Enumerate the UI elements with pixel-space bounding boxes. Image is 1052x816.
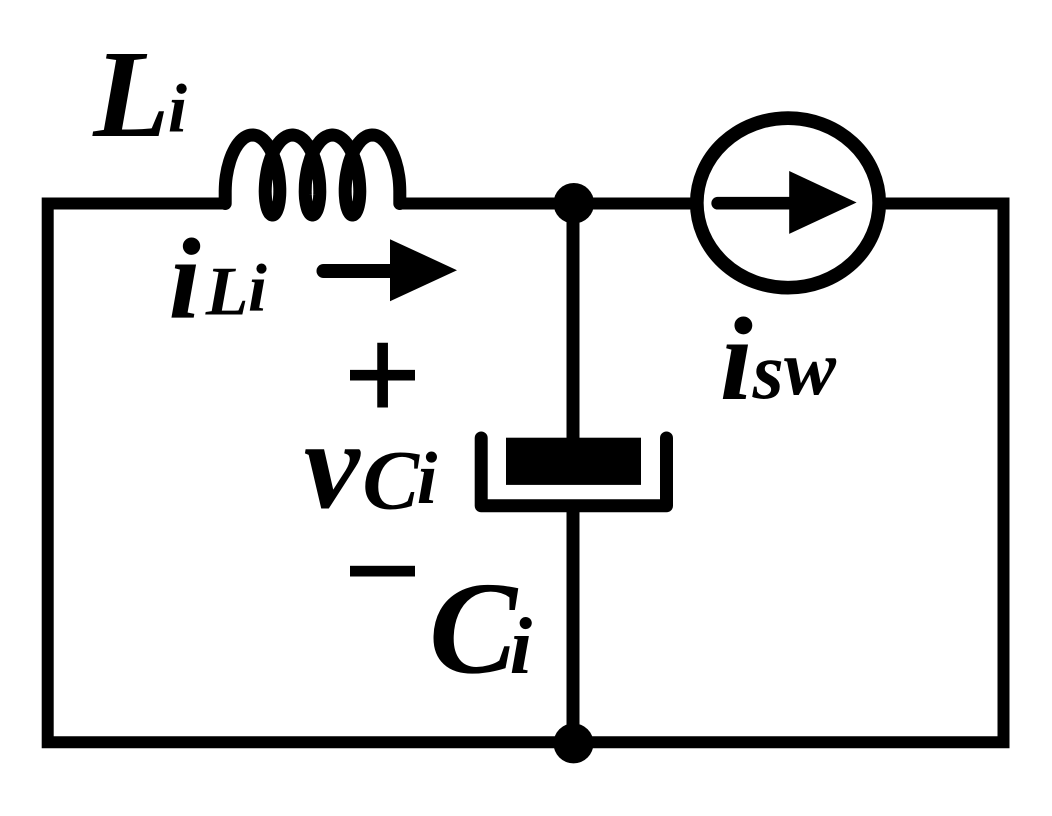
svg-text:i: i: [168, 71, 187, 147]
svg-text:i: i: [720, 293, 753, 425]
svg-text:L: L: [92, 26, 169, 164]
wire capacitor top lead: [567, 204, 580, 461]
minus sign: [350, 566, 415, 577]
svg-text:i: i: [248, 250, 267, 326]
capacitor Ci bottom plate bracket: [481, 438, 666, 506]
svg-text:i: i: [169, 216, 201, 344]
capacitor Ci top plate: [506, 438, 641, 485]
plus sign: [350, 343, 415, 408]
svg-text:C: C: [429, 554, 519, 701]
svg-text:C: C: [362, 434, 420, 528]
arrow isw inside source: [718, 197, 800, 210]
node top junction: [554, 183, 595, 224]
inductor Li: [225, 135, 400, 215]
node bottom junction: [554, 723, 594, 763]
wire outer loop left/bottom/right: [48, 204, 1004, 743]
arrow iLi current direction: [324, 264, 397, 278]
current source isw circle: [697, 118, 879, 288]
svg-text:v: v: [304, 397, 362, 536]
wire top middle segment: [398, 198, 701, 210]
svg-text:i: i: [510, 601, 533, 691]
svg-text:L: L: [205, 254, 249, 331]
wire capacitor bottom lead: [567, 505, 580, 743]
svg-text:s: s: [752, 328, 784, 416]
svg-text:w: w: [784, 324, 837, 411]
svg-text:i: i: [417, 438, 438, 520]
